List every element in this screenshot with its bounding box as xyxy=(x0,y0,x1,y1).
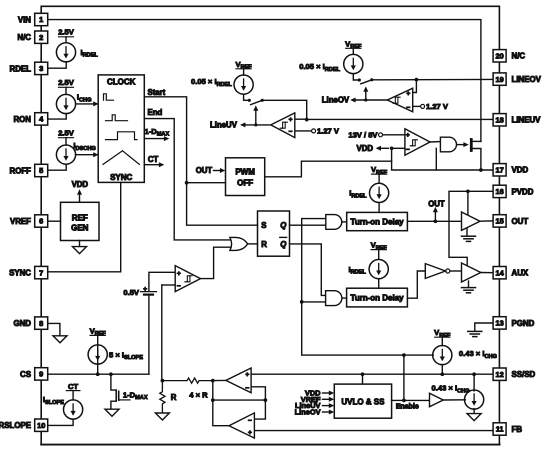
svg-text:9: 9 xyxy=(39,370,43,379)
svg-text:VDD: VDD xyxy=(72,180,89,189)
svg-text:1: 1 xyxy=(39,15,43,24)
svg-text:RON: RON xyxy=(13,115,31,124)
svg-text:14: 14 xyxy=(495,268,504,277)
svg-text:VIN: VIN xyxy=(18,15,31,24)
svg-text:+: + xyxy=(289,116,293,123)
svg-text:GND: GND xyxy=(13,319,31,328)
svg-text:PGND: PGND xyxy=(512,319,535,328)
svg-text:N/C: N/C xyxy=(17,33,31,42)
svg-text:2.5V: 2.5V xyxy=(58,28,75,37)
svg-text:−: − xyxy=(177,283,181,290)
svg-text:UVLO & SS: UVLO & SS xyxy=(341,397,385,406)
svg-text:AUX: AUX xyxy=(512,269,529,278)
svg-text:5: 5 xyxy=(39,166,43,175)
svg-text:N/C: N/C xyxy=(512,52,526,61)
svg-text:RSLOPE: RSLOPE xyxy=(0,421,31,430)
svg-text:6: 6 xyxy=(39,217,43,226)
svg-text:PWM: PWM xyxy=(235,167,255,176)
svg-text:16: 16 xyxy=(495,187,503,196)
svg-text:S: S xyxy=(261,221,266,230)
svg-text:GEN: GEN xyxy=(71,224,89,233)
svg-text:R: R xyxy=(261,240,267,249)
svg-text:ROFF: ROFF xyxy=(10,166,32,175)
svg-text:VDD: VDD xyxy=(512,166,529,175)
svg-text:−: − xyxy=(406,104,410,111)
svg-text:Q: Q xyxy=(280,240,286,249)
svg-text:OUT: OUT xyxy=(428,200,445,209)
svg-text:SYNC: SYNC xyxy=(110,173,132,182)
svg-text:+: + xyxy=(245,372,249,379)
svg-text:SYNC: SYNC xyxy=(9,269,31,278)
svg-text:R: R xyxy=(171,393,177,402)
svg-text:OFF: OFF xyxy=(237,179,253,188)
svg-text:18: 18 xyxy=(495,116,503,125)
svg-text:12: 12 xyxy=(495,370,503,379)
svg-text:SS/SD: SS/SD xyxy=(512,370,536,379)
svg-text:20: 20 xyxy=(495,52,503,61)
svg-text:OUT: OUT xyxy=(196,166,213,175)
svg-text:LineUV: LineUV xyxy=(210,121,238,130)
svg-text:VDD: VDD xyxy=(357,144,374,153)
svg-text:1.27 V: 1.27 V xyxy=(317,127,340,136)
svg-text:13: 13 xyxy=(495,319,503,328)
svg-text:−: − xyxy=(245,385,249,392)
svg-text:FB: FB xyxy=(512,425,523,434)
svg-text:CT: CT xyxy=(68,382,78,391)
svg-text:+: + xyxy=(248,429,252,436)
svg-text:10: 10 xyxy=(37,421,45,430)
svg-text:OUT: OUT xyxy=(512,217,529,226)
svg-text:LINEOV: LINEOV xyxy=(512,75,542,84)
svg-text:1.27 V: 1.27 V xyxy=(426,102,449,111)
svg-text:11: 11 xyxy=(496,425,504,434)
svg-text:Q: Q xyxy=(280,221,286,230)
svg-text:+: + xyxy=(406,132,410,139)
svg-text:+: + xyxy=(406,90,410,97)
svg-text:LineOV: LineOV xyxy=(322,96,350,105)
svg-text:7: 7 xyxy=(39,268,43,277)
svg-text:−: − xyxy=(248,417,252,424)
svg-text:CLOCK: CLOCK xyxy=(107,77,136,86)
svg-text:Turn-on Delay: Turn-on Delay xyxy=(350,218,404,227)
svg-text:2: 2 xyxy=(39,33,43,42)
svg-text:−: − xyxy=(289,129,293,136)
svg-text:Turn-on Delay: Turn-on Delay xyxy=(350,294,404,303)
svg-text:CS: CS xyxy=(20,370,31,379)
svg-text:17: 17 xyxy=(495,166,503,175)
svg-text:VREF: VREF xyxy=(10,217,31,226)
svg-text:Enable: Enable xyxy=(396,403,419,410)
svg-text:8: 8 xyxy=(39,319,43,328)
svg-text:RDEL: RDEL xyxy=(10,64,32,73)
svg-text:4 × R: 4 × R xyxy=(189,391,208,400)
svg-text:LINEUV: LINEUV xyxy=(512,116,542,125)
svg-text:Start: Start xyxy=(148,88,166,97)
svg-text:13V / 8V: 13V / 8V xyxy=(348,131,378,140)
svg-text:−: − xyxy=(406,147,410,154)
svg-text:0.5V: 0.5V xyxy=(123,288,140,297)
svg-text:2.5V: 2.5V xyxy=(58,129,75,138)
svg-text:3: 3 xyxy=(39,64,43,73)
svg-text:LineOV: LineOV xyxy=(295,408,321,417)
svg-text:15: 15 xyxy=(495,217,503,226)
svg-text:+: + xyxy=(143,286,147,293)
svg-text:19: 19 xyxy=(495,75,503,84)
svg-text:REF: REF xyxy=(72,213,88,222)
svg-text:+: + xyxy=(177,270,181,277)
svg-text:End: End xyxy=(148,108,163,117)
svg-text:CT: CT xyxy=(148,155,159,164)
svg-text:PVDD: PVDD xyxy=(512,187,534,196)
svg-text:2.5V: 2.5V xyxy=(58,78,75,87)
